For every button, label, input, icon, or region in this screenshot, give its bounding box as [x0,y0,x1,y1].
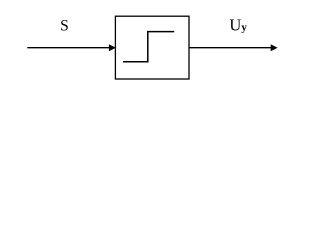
svg-text:U: U [229,16,241,35]
node step characteristic symbol [123,32,174,62]
svg-text:S: S [60,18,69,35]
wire input S [27,47,110,49]
node input arrowhead [109,44,116,51]
node output arrowhead [271,44,278,51]
svg-text:y: y [241,22,247,34]
block U1 relay step nonlinearity box [115,16,189,79]
wire output Uy [189,47,272,49]
